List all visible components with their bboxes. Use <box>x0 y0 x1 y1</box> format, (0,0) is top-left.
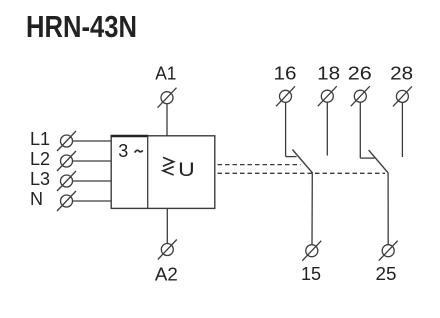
svg-text:25: 25 <box>376 264 397 284</box>
divider between supply section and measuring section <box>147 136 149 209</box>
wire from terminal 16 <box>285 102 287 156</box>
terminal N screw <box>57 191 76 211</box>
terminal L1 screw <box>57 131 76 151</box>
svg-text:L1: L1 <box>30 129 50 149</box>
wire L3 to block <box>73 180 112 182</box>
terminal A1 screw <box>158 88 177 108</box>
terminal L3 screw <box>57 171 76 191</box>
fixed contact hook 16 <box>286 156 297 158</box>
terminal 26 screw <box>351 86 370 106</box>
svg-text:15: 15 <box>301 264 321 284</box>
relay block U1 outline <box>111 136 215 209</box>
over/under voltage symbol ≷ <box>163 157 174 175</box>
svg-text:A2: A2 <box>155 264 178 284</box>
svg-text:3: 3 <box>118 141 128 161</box>
terminal 15 screw <box>302 241 321 261</box>
svg-text:28: 28 <box>390 63 413 83</box>
wire block to A2 <box>166 208 168 243</box>
wire L2 to block <box>73 160 112 162</box>
wire common to terminal 25 <box>387 173 389 245</box>
terminal A2 screw <box>158 240 177 260</box>
heavy top border of supply section <box>111 135 149 137</box>
svg-text:A1: A1 <box>155 64 176 84</box>
svg-text:16: 16 <box>274 63 297 83</box>
terminal 18 screw <box>318 86 337 106</box>
changeover contact blade 15-16 <box>292 150 312 174</box>
svg-text:L2: L2 <box>30 149 50 169</box>
terminal L2 screw <box>57 151 76 171</box>
actuator linkage (dashed) to second contact <box>218 172 386 174</box>
terminal 16 screw <box>276 86 295 106</box>
svg-text:U: U <box>178 159 195 181</box>
wire from terminal 26 <box>359 102 361 158</box>
svg-text:L3: L3 <box>30 169 50 189</box>
fixed contact hook 26 <box>360 157 374 159</box>
terminal 25 screw <box>379 241 398 261</box>
actuator linkage (dashed) to first contact <box>218 164 301 166</box>
changeover contact blade 25-26 <box>369 150 389 173</box>
svg-text:18: 18 <box>317 63 340 83</box>
wire from terminal 28 <box>401 102 403 157</box>
wire common to terminal 15 <box>311 173 313 245</box>
svg-text:HRN-43N: HRN-43N <box>26 10 137 44</box>
wire L1 to block <box>73 140 112 142</box>
wire N to block <box>73 200 112 202</box>
svg-text:N: N <box>30 189 43 209</box>
label ~ (AC) <box>135 150 143 152</box>
wire from terminal 18 <box>326 102 328 155</box>
terminal 28 screw <box>393 86 412 106</box>
wire A1 to block <box>166 104 168 136</box>
svg-text:26: 26 <box>348 63 372 83</box>
